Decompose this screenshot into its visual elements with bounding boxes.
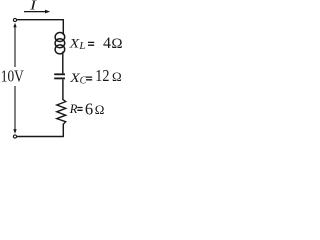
- svg-text:I: I: [29, 0, 37, 13]
- voltage arrow lower: [13, 86, 16, 134]
- svg-text:L: L: [78, 40, 85, 52]
- terminal top: [13, 18, 16, 21]
- wire bottom: [17, 136, 64, 138]
- svg-text:12: 12: [95, 66, 109, 85]
- voltage arrow upper: [13, 23, 16, 67]
- capacitor plates: [54, 74, 65, 78]
- inductor coil: [55, 32, 66, 55]
- svg-text:Ω: Ω: [112, 69, 122, 84]
- label XC = 12 ohm: [69, 66, 122, 87]
- terminal bottom: [13, 135, 16, 138]
- wire top: [17, 19, 64, 21]
- svg-text:C: C: [80, 76, 87, 87]
- label R = 6 ohm: [69, 99, 105, 118]
- svg-text:4: 4: [103, 35, 111, 52]
- svg-text:6: 6: [85, 99, 93, 118]
- current arrow: [24, 10, 50, 14]
- wire right upper: [62, 19, 64, 35]
- svg-text:10V: 10V: [1, 66, 24, 85]
- svg-text:Ω: Ω: [111, 36, 122, 52]
- wire inductor to capacitor: [62, 52, 64, 74]
- wire right lower: [62, 124, 64, 137]
- svg-text:Ω: Ω: [95, 102, 105, 117]
- label XL = 4 ohm: [69, 35, 123, 52]
- wire capacitor to resistor: [62, 79, 64, 100]
- resistor zigzag: [57, 100, 66, 125]
- svg-text:R: R: [69, 102, 78, 116]
